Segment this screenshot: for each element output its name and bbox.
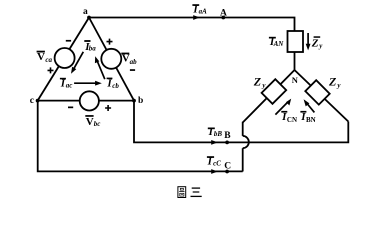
wire: c down and right to C line end [38, 101, 243, 172]
minus sign V_ab bottom [130, 69, 135, 71]
arrow Z_y (down, right of box A) [307, 33, 309, 45]
svg-text:bB: bB [214, 130, 223, 138]
svg-text:I: I [207, 155, 213, 167]
svg-text:a: a [83, 7, 88, 17]
current arrow I_BN (up-left) [307, 103, 315, 112]
source V_bc circle [80, 91, 99, 110]
svg-text:BN: BN [306, 116, 316, 124]
label V_ca [37, 51, 45, 53]
node A dot [221, 16, 225, 20]
svg-text:B: B [224, 131, 231, 141]
label I_ac [60, 78, 66, 80]
svg-text:y: y [336, 81, 341, 89]
label Z_y (top, with overline) [314, 36, 321, 38]
caption glyph 圖 [178, 187, 186, 198]
node b dot [132, 99, 136, 103]
svg-text:ab: ab [130, 58, 138, 66]
svg-text:A: A [220, 8, 227, 18]
svg-text:ac: ac [66, 81, 73, 89]
impedance diamond Z_y left (phase C leg) [262, 79, 287, 104]
wire: top line from a to corner down into box [89, 18, 295, 32]
svg-text:y: y [318, 42, 323, 50]
wire: left leg vertical lower part [242, 148, 244, 171]
plus sign V_ca bottom [48, 67, 54, 73]
svg-text:Z: Z [328, 75, 337, 89]
wire: hop over B line [243, 136, 249, 148]
svg-text:I: I [192, 3, 198, 15]
svg-text:Z: Z [253, 75, 262, 89]
svg-text:cb: cb [112, 82, 119, 90]
delta triangle bottom edge [38, 100, 134, 102]
current arrow I_ac (right) [74, 82, 96, 84]
svg-text:CN: CN [287, 116, 297, 124]
svg-text:Z: Z [311, 37, 319, 49]
wire: left leg vertical upper part [242, 122, 244, 136]
label I_CN [281, 111, 287, 113]
current arrow I_cC head [211, 169, 218, 174]
current arrow I_ba (down-left) [74, 52, 84, 69]
node c dot [36, 99, 40, 103]
label I_BN [300, 111, 306, 113]
current arrow I_aA head [193, 15, 200, 20]
label I_bB [208, 128, 215, 130]
wire: b down, B line right, up to right leg corner [134, 101, 348, 143]
label I_ba [84, 40, 90, 42]
impedance diamond Z_y right (phase B leg) [305, 80, 329, 104]
caption glyph 三 [191, 188, 202, 196]
minus sign V_bc left [68, 107, 73, 109]
source V_ab circle [101, 49, 121, 69]
delta triangle left edge [38, 18, 89, 101]
svg-text:ca: ca [45, 56, 52, 64]
svg-text:cC: cC [213, 160, 221, 168]
svg-text:I: I [60, 78, 66, 90]
source V_ca circle [55, 48, 75, 68]
svg-text:V: V [86, 116, 94, 128]
label I_cC [207, 156, 214, 158]
svg-text:V: V [37, 51, 45, 63]
svg-text:I: I [208, 126, 214, 138]
label I_AN [269, 37, 276, 39]
svg-text:bc: bc [94, 120, 101, 128]
svg-text:b: b [138, 96, 143, 106]
plus sign V_ab top [107, 39, 113, 45]
node a dot [87, 16, 91, 20]
wire: right wye leg diagonal N to corner [295, 70, 349, 122]
current arrow I_CN (up-right) [275, 103, 287, 115]
svg-text:N: N [292, 75, 299, 85]
label V_bc [85, 115, 93, 117]
wire: left wye leg diagonal N to corner [243, 70, 295, 123]
minus sign V_ca top [66, 40, 71, 42]
svg-text:c: c [30, 96, 34, 106]
node C dot [225, 170, 229, 174]
label I_cb [107, 78, 113, 80]
delta triangle right edge [89, 18, 134, 101]
impedance box Z_y phase A [288, 31, 304, 52]
svg-text:AN: AN [273, 40, 285, 48]
svg-text:aA: aA [199, 7, 208, 15]
label V_ab [121, 53, 129, 55]
svg-text:C: C [224, 161, 231, 171]
node B dot [225, 141, 229, 145]
svg-text:ba: ba [89, 45, 97, 53]
plus sign V_bc right [105, 105, 111, 111]
current arrow I_cb (up) [98, 62, 105, 79]
wire: box bottom to node N [294, 52, 296, 70]
current arrow I_bB head [211, 140, 218, 145]
label I_aA [192, 4, 199, 6]
svg-text:V: V [122, 53, 130, 65]
